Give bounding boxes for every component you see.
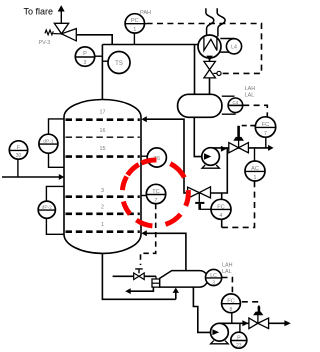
wire reboiler outlet to bottoms pump	[193, 287, 210, 332]
signal FC-8 to bottoms valve (dashed)	[242, 302, 259, 307]
svg-text:PC: PC	[131, 18, 139, 24]
tray 17	[66, 118, 140, 121]
bottoms pump P-2	[211, 323, 229, 343]
wire condenser bypass line	[194, 45, 196, 95]
tray 3	[66, 195, 140, 198]
tray 16	[66, 136, 140, 138]
reboiler E-2	[160, 271, 208, 288]
svg-text:LAL: LAL	[222, 269, 232, 275]
wire distillate product line	[211, 147, 269, 149]
svg-text:15: 15	[100, 146, 106, 152]
instrument TS	[102, 52, 130, 74]
actuator of distillate valve	[237, 126, 240, 138]
instrument AC-1	[245, 148, 265, 181]
signal AC-1 to FC-4 (dashed)	[222, 181, 255, 227]
wire condenser outlet to drum	[209, 58, 211, 95]
svg-text:TS: TS	[115, 61, 123, 67]
svg-text:C4: C4	[232, 100, 238, 105]
red highlight circle	[122, 160, 188, 226]
wire reflux line from drum area to column	[146, 119, 228, 193]
svg-text:LAH: LAH	[222, 262, 233, 268]
condenser trim L4	[220, 39, 241, 54]
arrow after bottoms pump	[242, 320, 248, 326]
wire bottoms outlet from column	[102, 253, 175, 299]
reboiler nozzle box	[155, 276, 157, 279]
drum level bridle LC	[222, 96, 243, 114]
signal drum LC to FC-7 (dashed)	[243, 105, 267, 117]
instrument dP-2	[38, 186, 64, 234]
svg-text:1: 1	[254, 175, 257, 181]
svg-text:2: 2	[101, 205, 104, 211]
svg-text:TC: TC	[152, 189, 159, 195]
svg-text:3: 3	[101, 188, 104, 194]
instrument F-30	[9, 141, 27, 177]
tray labels	[100, 110, 106, 228]
svg-text:AC: AC	[251, 166, 259, 172]
wire column riser	[101, 45, 103, 101]
wire reboiler internal baffle	[185, 271, 187, 287]
reflux pump P-1	[202, 148, 220, 169]
tray 2	[66, 213, 140, 216]
wire overhead vapor line	[102, 44, 198, 46]
instrument FC-8	[222, 294, 241, 323]
svg-text:P: P	[83, 51, 87, 57]
signal FC-7 to reflux product valve (dashed)	[239, 125, 256, 127]
column T-1	[64, 100, 141, 254]
steam control valve	[134, 273, 145, 280]
cooling water pigtail left	[206, 8, 214, 35]
svg-text:FC: FC	[217, 204, 224, 210]
instrument LC-3	[206, 269, 222, 286]
svg-text:30: 30	[16, 153, 22, 159]
reflux control valve (FC-4 valve)	[188, 187, 211, 199]
svg-text:7: 7	[155, 198, 158, 204]
svg-text:F: F	[17, 145, 20, 151]
wire reboiler feed riser	[175, 291, 177, 299]
tray 1	[66, 230, 140, 233]
arrow vapor return into column	[141, 230, 147, 236]
cooling water pigtail right	[217, 8, 225, 36]
condenser E-1	[198, 35, 221, 58]
instrument PC-1	[125, 10, 151, 45]
svg-text:LAL: LAL	[245, 93, 255, 99]
svg-text:23: 23	[236, 343, 242, 349]
distillate control valve	[229, 143, 249, 153]
svg-text:LC: LC	[210, 273, 217, 279]
instrument TC-7	[141, 184, 166, 204]
flare arrow	[60, 11, 62, 24]
steam valve actuator	[135, 269, 143, 273]
wire steam line to reboiler	[113, 275, 156, 277]
svg-text:P: P	[237, 335, 241, 341]
svg-text:dP-1: dP-1	[43, 139, 54, 145]
instrument FC-4	[211, 193, 231, 219]
signal TC-7 to steam valve (dashed)	[141, 204, 156, 265]
svg-text:PAH: PAH	[140, 10, 151, 16]
instrument P-23	[231, 323, 247, 349]
svg-text:dP-2: dP-2	[42, 205, 53, 211]
arrow end of bottoms product line	[284, 320, 290, 326]
svg-text:8: 8	[230, 307, 233, 313]
svg-text:7: 7	[264, 131, 267, 137]
wire flare line	[76, 35, 112, 45]
svg-text:To flare: To flare	[24, 6, 54, 16]
signal LC-3 to FC-8 (dashed)	[222, 278, 233, 293]
instrument T6	[141, 148, 166, 167]
spring of PV-3	[45, 30, 62, 35]
pressure control valve below condenser	[204, 61, 216, 78]
arrow reflux into column	[141, 116, 147, 122]
svg-text:16: 16	[100, 128, 106, 134]
instrument FC-7	[255, 117, 275, 148]
svg-text:1: 1	[133, 27, 136, 33]
svg-text:FC: FC	[227, 299, 234, 305]
wire condensate line with arrow	[130, 287, 154, 292]
svg-text:4: 4	[220, 213, 223, 219]
instrument P-3	[75, 47, 102, 66]
wire bottoms product line	[219, 322, 285, 324]
flow arrow into pressure valve	[206, 56, 212, 61]
arrow condensate to left	[125, 288, 131, 294]
arrow after reflux pump	[221, 146, 227, 152]
tray 15	[66, 155, 140, 158]
signal PC to pressure valve (dashed)	[147, 24, 262, 74]
svg-text:3: 3	[84, 60, 87, 66]
svg-text:PV-3: PV-3	[39, 40, 51, 46]
svg-text:LAH: LAH	[245, 86, 256, 92]
arrow end of distillate line	[268, 145, 274, 151]
wire feed line	[2, 176, 59, 178]
reflux drum V-2	[178, 94, 222, 117]
svg-text:17: 17	[100, 110, 106, 116]
arrow bottoms into reboiler	[173, 288, 179, 293]
wire pump suction from drum	[194, 117, 202, 157]
instrument dP-1	[39, 119, 64, 167]
wire reboiler vapor return	[146, 233, 186, 271]
arrow feed into column	[59, 174, 64, 180]
bottoms product control valve	[249, 318, 269, 329]
svg-text:3: 3	[212, 280, 215, 286]
svg-text:L4: L4	[231, 44, 237, 50]
relief valve PV-3	[54, 23, 68, 34]
svg-text:FC: FC	[262, 122, 269, 128]
svg-text:1: 1	[101, 222, 104, 228]
